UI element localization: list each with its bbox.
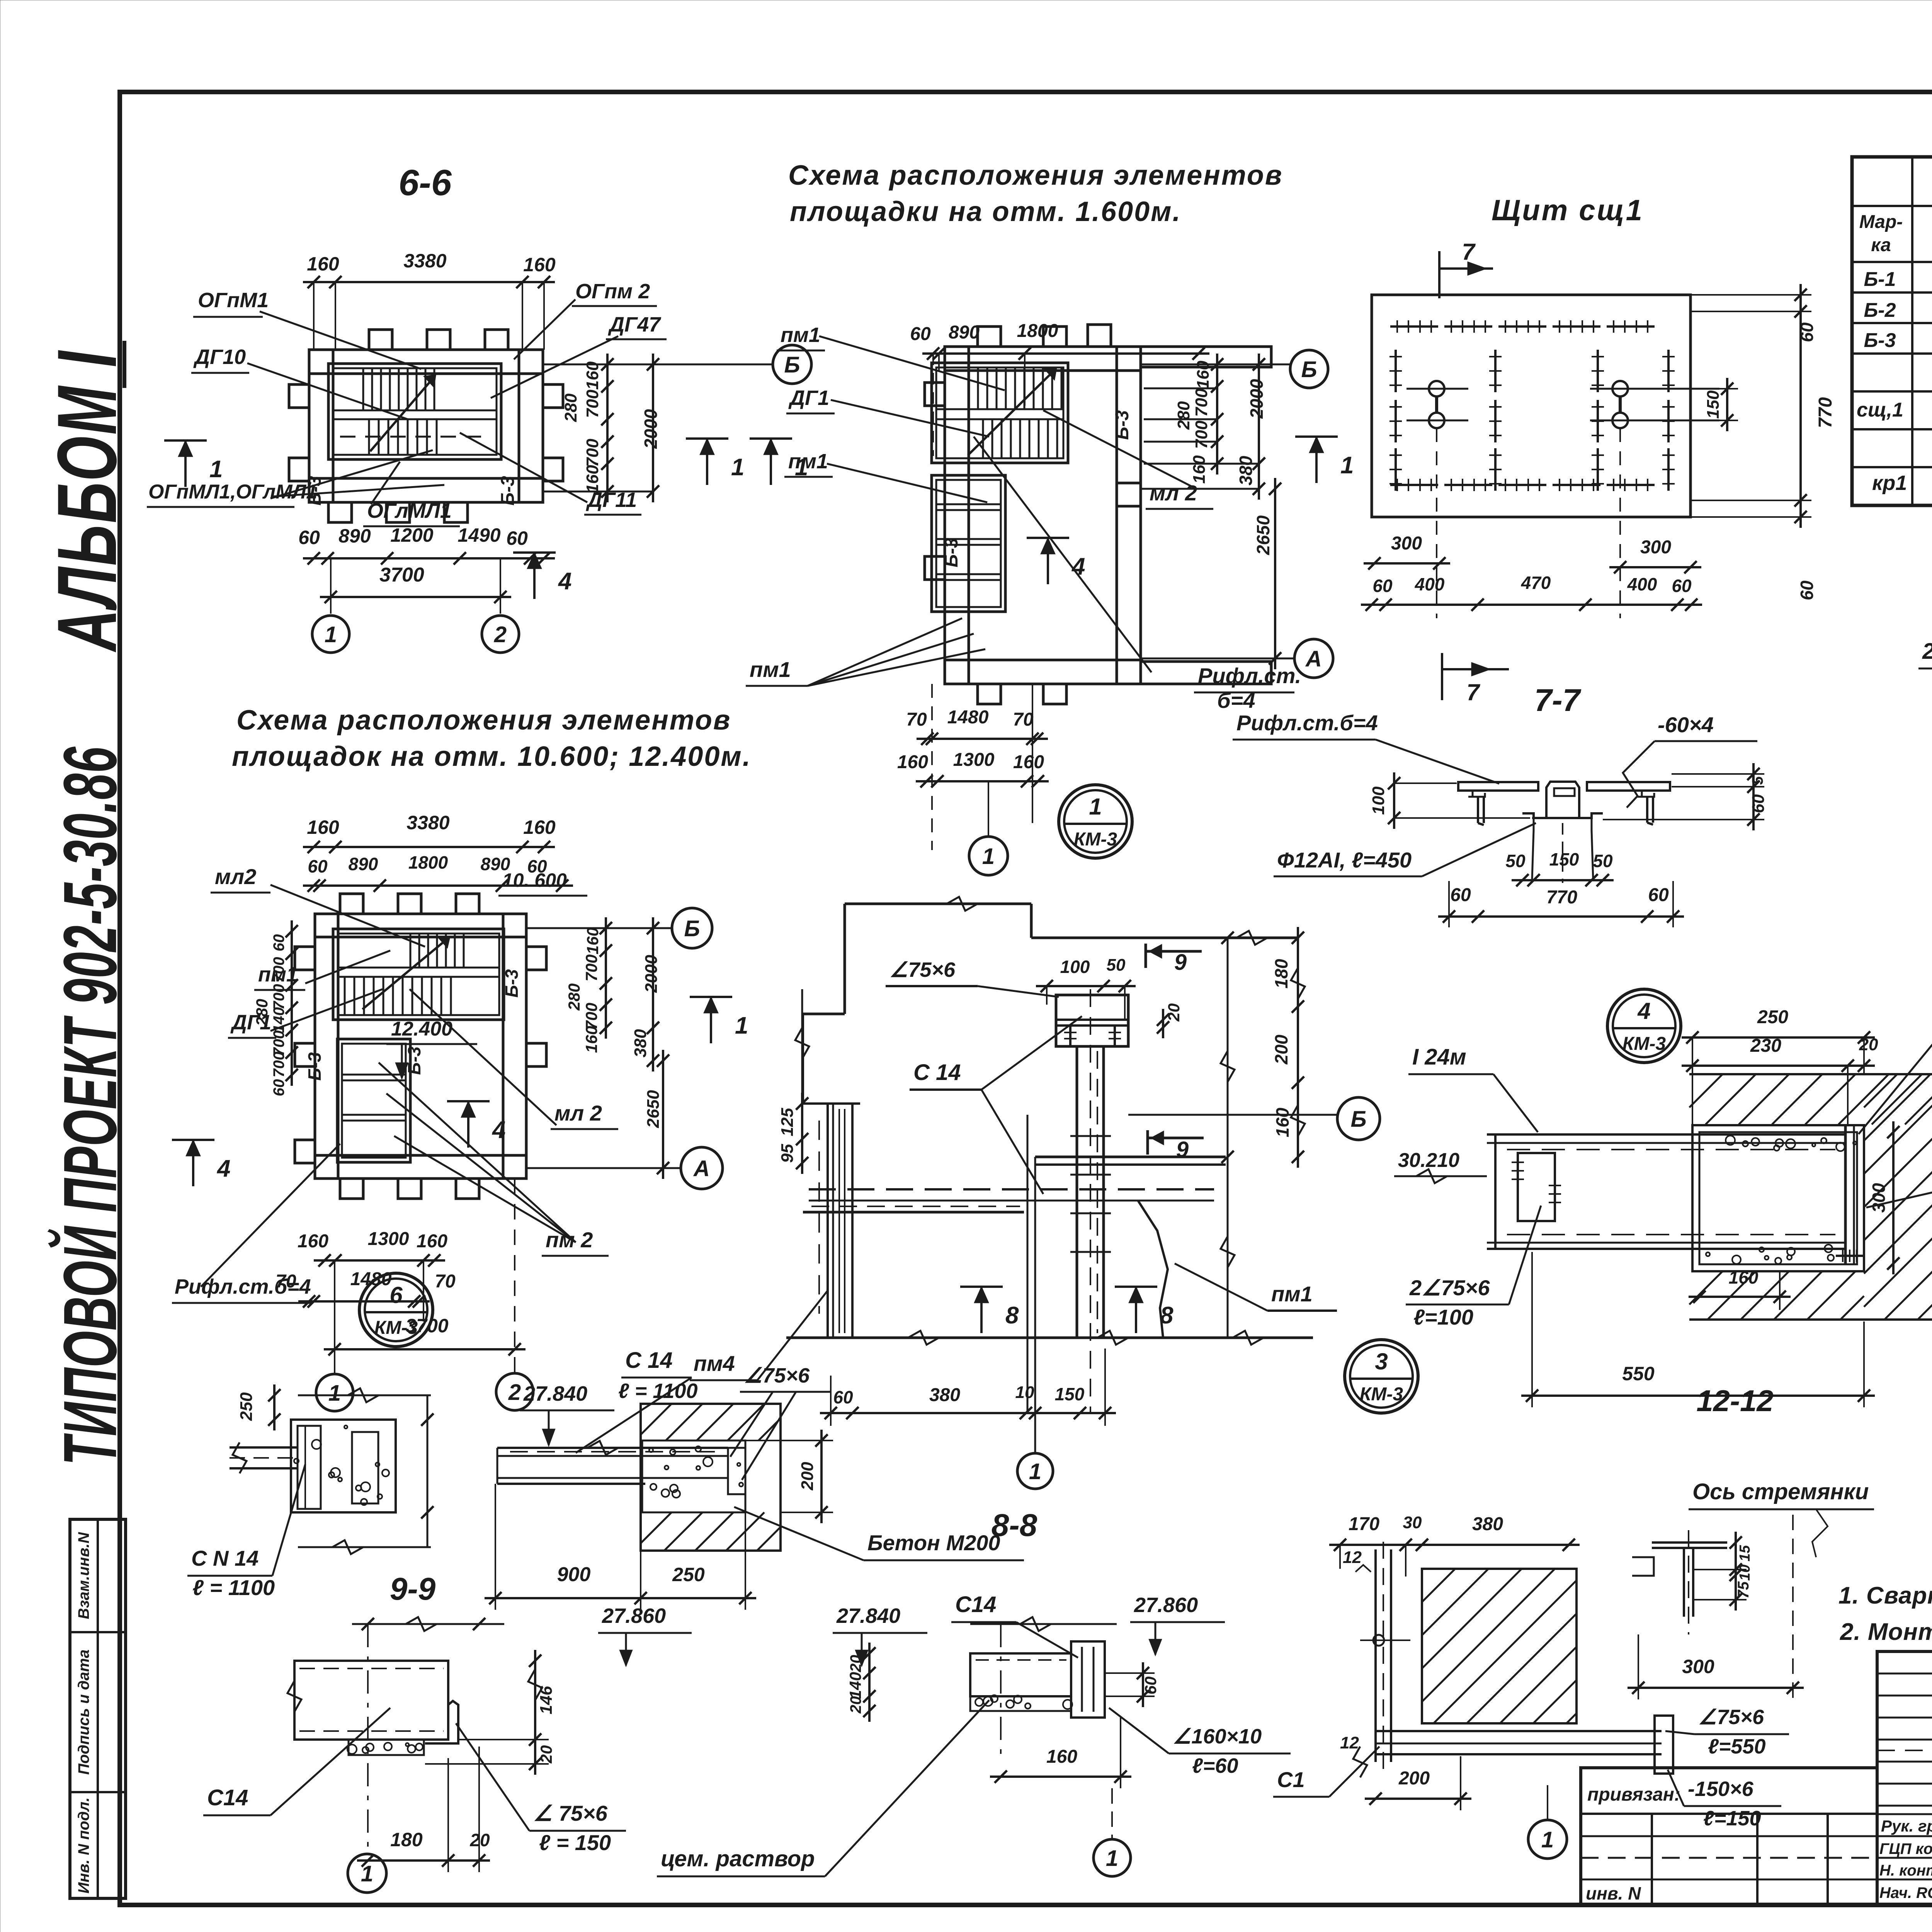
гнездо dimension 300 right (1869, 1121, 1900, 1274)
table row сщ1 (1857, 359, 1932, 426)
svg-text:Нач. RCO: Нач. RCO (1879, 1884, 1932, 1901)
svg-text:АЛЬБОМ I: АЛЬБОМ I (40, 350, 134, 653)
label Б-3 plan 10.600 mid (404, 1046, 424, 1075)
svg-text:160: 160 (1190, 455, 1209, 484)
svg-text:ГЦП конс: ГЦП конс (1879, 1840, 1932, 1857)
detail 12-12 beam bottom (1376, 1716, 1673, 1774)
level mark 12.400 with arrow (386, 1018, 477, 1078)
svg-text:20: 20 (537, 1745, 555, 1764)
svg-text:150: 150 (1549, 849, 1579, 869)
central section left wall bundle (803, 1104, 860, 1338)
svg-text:60: 60 (1749, 794, 1768, 813)
svg-text:8-8: 8-8 (992, 1508, 1037, 1543)
svg-text:900: 900 (557, 1563, 591, 1586)
detail 12-12 dim 200 (1365, 1756, 1471, 1810)
plan 10.600 lower box (337, 1039, 410, 1162)
svg-text:С14: С14 (207, 1785, 248, 1810)
section marks 1-1 right of plan 6-6 (686, 439, 808, 485)
svg-text:Щит сщ1: Щит сщ1 (1492, 194, 1644, 227)
label Рифл.ст.б=4 detail 7-7 (1233, 711, 1499, 784)
plan 6-6 stair box (328, 364, 501, 459)
svg-text:Ф12АI, ℓ=450: Ф12АI, ℓ=450 (1277, 848, 1412, 872)
svg-text:300: 300 (1391, 533, 1422, 554)
svg-text:160: 160 (897, 752, 928, 772)
axis circle Б plan 10.600 (672, 908, 712, 948)
svg-text:250: 250 (672, 1564, 705, 1585)
svg-text:мл 2: мл 2 (554, 1101, 602, 1125)
svg-text:50: 50 (1107, 956, 1126, 975)
svg-text:ОГлМЛ1: ОГлМЛ1 (367, 499, 452, 522)
svg-text:2000: 2000 (1247, 379, 1267, 419)
detail c14 centerline (367, 1624, 369, 1851)
level mark 10.600 (498, 869, 587, 896)
sidebar label Взам.инв N (75, 1532, 92, 1619)
label мл2 plan 10.600 (211, 864, 270, 893)
detail цем dims 20 140 20 (846, 1643, 876, 1722)
svg-text:160: 160 (1013, 752, 1044, 772)
svg-text:20: 20 (1165, 1003, 1183, 1022)
svg-text:пм 2: пм 2 (546, 1228, 593, 1252)
svg-text:площадок на отм. 10.600; 12.40: площадок на отм. 10.600; 12.400м. (232, 741, 752, 772)
section mark 1 plan 1.600 (1295, 437, 1354, 483)
label С14 l=1100 detail 8-8 (576, 1348, 698, 1453)
svg-text:125: 125 (778, 1108, 797, 1136)
svg-text:Подпись и дата: Подпись и дата (75, 1650, 92, 1775)
axis circle Б plan 1.600 (1290, 350, 1328, 388)
label angle 160x10 l=200 (1866, 1134, 1932, 1207)
svg-text:4: 4 (1071, 553, 1085, 580)
svg-text:700: 700 (270, 1052, 287, 1078)
svg-text:1300: 1300 (953, 750, 995, 770)
svg-text:9: 9 (1174, 950, 1187, 975)
svg-text:60: 60 (1141, 1677, 1160, 1695)
гнездо dimensions 250 230 20 (1682, 1007, 1878, 1126)
panel right dimension chain 60 770 60 (1690, 284, 1836, 600)
svg-text:С N 14: С N 14 (191, 1546, 259, 1570)
svg-text:∠75×6: ∠75×6 (744, 1364, 810, 1387)
detail цем dim 60 rotated (1105, 1662, 1160, 1707)
central left dims 125 95 (778, 989, 809, 1174)
svg-text:8: 8 (1005, 1302, 1019, 1329)
axis circle Б plan 6-6 (773, 345, 811, 384)
level 27.860 bottom-left (598, 1604, 692, 1665)
central right dim chain 180 200 160 (1221, 927, 1305, 1337)
svg-text:380: 380 (1472, 1514, 1503, 1534)
svg-text:70: 70 (435, 1271, 456, 1292)
section title 6-6 (398, 162, 452, 203)
svg-text:1: 1 (982, 844, 995, 869)
svg-text:1: 1 (325, 622, 337, 647)
panel bolt pair right (1590, 381, 1719, 618)
svg-text:1800: 1800 (408, 852, 448, 872)
svg-text:95: 95 (778, 1144, 797, 1163)
svg-text:Схема расположения элементов: Схема расположения элементов (236, 705, 731, 736)
section mark 1 left of plan 6-6 (164, 440, 223, 487)
svg-text:27.860: 27.860 (602, 1604, 666, 1628)
detail стремянка dim 300 (1628, 1515, 1804, 1699)
svg-text:700: 700 (582, 954, 600, 981)
node circle 1 КМ-3 center (1059, 785, 1132, 858)
svg-text:2650: 2650 (644, 1090, 663, 1128)
signature rows texts (1879, 1816, 1932, 1902)
svg-text:70: 70 (1013, 709, 1034, 730)
axis circle А plan 1.600 (1294, 639, 1333, 678)
svg-text:12: 12 (1340, 1733, 1359, 1752)
svg-text:10. 600: 10. 600 (502, 869, 567, 891)
svg-text:6: 6 (389, 1282, 403, 1308)
svg-text:9-9: 9-9 (390, 1571, 436, 1607)
label С14 bottom-left (203, 1708, 390, 1815)
svg-text:250: 250 (237, 1392, 256, 1421)
гнездо wall hatch upper (1689, 1074, 1932, 1320)
svg-text:привязан:: привязан: (1587, 1784, 1680, 1805)
plan 1.600 right dimension chain (1141, 354, 1294, 669)
svg-text:∠75×6: ∠75×6 (889, 958, 956, 981)
label Гнездо 250х300х350 (1859, 996, 1932, 1134)
label 2С20 (1918, 639, 1932, 736)
гнездо angle 160x10 vertical (1836, 1125, 1864, 1264)
table row Б-3 (1864, 328, 1932, 354)
svg-text:700: 700 (582, 1003, 600, 1030)
svg-text:20: 20 (847, 1696, 864, 1714)
label Ф12АI l=450 detail 7-7 (1274, 823, 1536, 876)
label пм4 (690, 1291, 828, 1380)
detail 12-12 dims 170 30 380 (1329, 1513, 1580, 1577)
svg-text:Б: Б (784, 352, 800, 378)
detail c14 box (287, 1661, 458, 1755)
svg-text:50: 50 (1505, 851, 1526, 871)
plan 10.600 right dimension chain (526, 917, 681, 1179)
detail 7-7 left tread plate (1458, 782, 1538, 825)
svg-text:160: 160 (307, 253, 339, 275)
svg-text:280: 280 (561, 393, 580, 422)
svg-text:160: 160 (583, 465, 602, 493)
svg-text:КМ-3: КМ-3 (374, 1318, 418, 1338)
table header texts (1859, 166, 1932, 279)
label ОГпм 2 plan 6-6 (572, 280, 657, 306)
section mark 1 plan 10.600 right (690, 997, 748, 1043)
svg-text:160: 160 (583, 361, 602, 390)
svg-text:Н. контр: Н. контр (1879, 1862, 1932, 1879)
svg-text:15: 15 (1737, 1545, 1753, 1561)
svg-text:890: 890 (949, 322, 980, 343)
detail 8-8 concrete band (642, 1440, 745, 1512)
svg-text:60: 60 (1797, 580, 1817, 600)
svg-text:С 14: С 14 (913, 1060, 961, 1085)
svg-text:160: 160 (1272, 1107, 1293, 1137)
svg-text:А: А (1305, 646, 1322, 672)
svg-text:б=4: б=4 (1217, 688, 1255, 713)
label С14 bottom-middle (951, 1592, 1078, 1658)
plan 6-6 castellated wall (289, 330, 563, 522)
svg-text:160: 160 (307, 816, 339, 838)
svg-text:ТИПОВОЙ ПРОЕКТ 902-5-30.86: ТИПОВОЙ ПРОЕКТ 902-5-30.86 (47, 747, 133, 1466)
label ОГпМ1 plan 6-6 (193, 289, 269, 317)
svg-text:ℓ = 1100: ℓ = 1100 (192, 1575, 275, 1600)
detail c14 top dim line (352, 1617, 504, 1631)
panel dimension 150 right (1628, 378, 1738, 431)
svg-text:27.840: 27.840 (836, 1604, 900, 1628)
svg-text:60: 60 (1672, 576, 1692, 596)
svg-text:1: 1 (361, 1861, 373, 1886)
svg-text:8: 8 (1160, 1302, 1173, 1329)
svg-text:20: 20 (847, 1655, 864, 1673)
svg-text:700: 700 (270, 957, 287, 983)
svg-text:300: 300 (1682, 1656, 1714, 1677)
svg-text:Б-3: Б-3 (1864, 329, 1896, 352)
svg-text:60: 60 (298, 527, 320, 548)
label Б-3 left wall plan 6-6 (304, 476, 325, 505)
detail 7-7 right tread plate (1587, 782, 1670, 825)
plan 10.600 top dimensions 160 3380 160 (303, 812, 556, 853)
sidebar stamp boxes (70, 1519, 126, 1898)
plan 10.600 castellated wall (295, 894, 546, 1199)
axis circle 1 plan 10.600 (316, 1374, 353, 1411)
table row Б-2 (1864, 298, 1932, 323)
schema title площадки на отм 1.600 (788, 160, 1283, 227)
axis circle 1 detail 12-12 (1528, 1785, 1567, 1859)
plan 10.600 bottom dimensions (276, 1179, 526, 1374)
label пм1 plan 1.600 mid (784, 450, 833, 477)
svg-text:60: 60 (833, 1387, 853, 1407)
svg-text:3700: 3700 (379, 564, 424, 586)
panel bottom dimension 300 right (1609, 537, 1701, 573)
svg-text:150: 150 (1055, 1384, 1085, 1404)
label мл 2 right plan 10.600 (551, 1101, 618, 1129)
section marks 8-8 (960, 1287, 1173, 1333)
label ДГ11 (584, 488, 641, 515)
label Бетон М200 (734, 1507, 1024, 1560)
svg-text:1: 1 (731, 454, 744, 481)
notes line 1 welding electrodes (1838, 1582, 1932, 1609)
central dimensions 100 50 20 (1036, 956, 1183, 1038)
detail цем box (970, 1617, 1117, 1754)
svg-text:1800: 1800 (1017, 321, 1058, 341)
svg-text:60: 60 (1797, 322, 1817, 342)
svg-text:1: 1 (1089, 794, 1102, 820)
detail 7-7 dimension 100 left (1369, 772, 1530, 829)
axis circle 2 plan 6-6 (482, 616, 519, 653)
svg-text:4: 4 (492, 1117, 505, 1143)
svg-text:160: 160 (523, 254, 556, 276)
svg-text:∠160×10: ∠160×10 (1173, 1725, 1262, 1748)
svg-text:КМ-3: КМ-3 (1622, 1034, 1666, 1054)
svg-text:4: 4 (558, 568, 571, 595)
svg-text:КМ-3: КМ-3 (1360, 1384, 1403, 1405)
svg-text:Б-3: Б-3 (941, 537, 962, 567)
svg-text:1: 1 (1541, 1827, 1554, 1852)
detail стремянка T-post (1632, 1530, 1727, 1634)
detail 8-8 dimension 200 (746, 1430, 833, 1523)
svg-text:700: 700 (583, 389, 602, 418)
central section landing beam С14 (803, 1189, 1214, 1212)
svg-text:2000: 2000 (641, 409, 661, 449)
label Б-3 plan 10.600 right (502, 969, 522, 998)
detail 8-8 level 27.840 (520, 1382, 614, 1445)
svg-text:2650: 2650 (1253, 515, 1273, 555)
svg-text:2∠75×6: 2∠75×6 (1409, 1276, 1490, 1300)
svg-text:160: 160 (582, 1026, 600, 1053)
detail c14 dims 180 20 (357, 1747, 490, 1872)
table row кр1 (1872, 424, 1932, 502)
svg-text:30: 30 (1403, 1513, 1422, 1532)
detail 7-7 center channel (1522, 782, 1603, 883)
axis circle 1 plan 6-6 (312, 616, 349, 653)
svg-text:2. Монтажные болты М12, швы: 2. Монтажные болты М12, швы hш = 6мм. (1840, 1619, 1932, 1645)
svg-text:7-7: 7-7 (1534, 683, 1582, 718)
level 27.840 bottom-middle (833, 1604, 927, 1665)
plan 6-6 right dimension chain 160 700 280 700 160 2000 (544, 354, 774, 502)
svg-text:Схема расположения элементов: Схема расположения элементов (788, 160, 1283, 191)
svg-text:сщ,1: сщ,1 (1857, 399, 1903, 421)
svg-text:140: 140 (270, 1007, 287, 1033)
svg-text:2000: 2000 (642, 955, 661, 993)
svg-text:1: 1 (209, 456, 223, 483)
svg-text:кр1: кр1 (1872, 471, 1907, 495)
svg-text:1480: 1480 (350, 1269, 392, 1289)
svg-text:100: 100 (1369, 786, 1388, 815)
title Щит сщ1 (1492, 194, 1644, 227)
label Б-3 plan 1.600 left wall (941, 537, 962, 567)
svg-text:Б-3: Б-3 (498, 476, 518, 505)
гнездо beam I24 (1487, 1134, 1845, 1249)
svg-text:890: 890 (349, 854, 378, 874)
plan 10.600 left dimension chain (253, 920, 298, 1096)
label ДГ1 plan 1.600 (786, 386, 835, 413)
detail 7-7 dimensions 60 770 60 (1438, 881, 1684, 927)
label angle 160x10 l=60 (1109, 1708, 1291, 1777)
section title 12-12 (1696, 1384, 1774, 1418)
svg-text:ДГ10: ДГ10 (193, 345, 246, 369)
central section baseline (786, 1331, 1313, 1345)
svg-text:Инв. N подл.: Инв. N подл. (75, 1798, 92, 1894)
section mark 4 plan 1.600 (1027, 538, 1085, 584)
svg-text:700: 700 (583, 439, 602, 467)
svg-text:50: 50 (1593, 851, 1613, 871)
svg-text:890: 890 (338, 525, 371, 547)
svg-text:60: 60 (1450, 885, 1471, 905)
svg-text:Ось стремянки: Ось стремянки (1692, 1479, 1869, 1504)
label цем раствор (657, 1700, 989, 1876)
svg-text:180: 180 (390, 1829, 423, 1850)
svg-text:ДГ47: ДГ47 (608, 313, 662, 336)
label пм1 central (1175, 1264, 1337, 1311)
detail 7-7 dimensions 50 150 50 (1505, 849, 1614, 886)
svg-text:ℓ=100: ℓ=100 (1413, 1305, 1473, 1329)
plan 10.600 dimensions 60 890 1800 890 60 (303, 852, 573, 892)
label С14 central (910, 1016, 1082, 1194)
plan 1.600 top dimensions 60 890 1800 (910, 321, 1209, 456)
axis circle 1 bottom-left detail (348, 1854, 386, 1893)
level mark 30.210 (1394, 1149, 1487, 1183)
panel bolt pair left (1406, 381, 1468, 618)
svg-text:площадки на отм. 1.600м.: площадки на отм. 1.600м. (790, 196, 1181, 227)
svg-text:70: 70 (276, 1271, 296, 1292)
plan 6-6 top dimension 160 3380 160 (303, 250, 556, 350)
svg-text:-150×6: -150×6 (1688, 1777, 1754, 1801)
panel bottom dimension 60 400 470 400 60 (1361, 573, 1702, 611)
section mark 7 below panel (1442, 653, 1509, 705)
svg-text:1480: 1480 (947, 707, 989, 728)
svg-text:ОГпМ1: ОГпМ1 (198, 289, 269, 312)
label -60x4 detail 7-7 (1623, 713, 1757, 808)
plan 1.600 lower box with beams Б-3 (932, 475, 1005, 612)
svg-text:цем. раствор: цем. раствор (661, 1846, 815, 1871)
svg-text:146: 146 (537, 1686, 556, 1714)
svg-text:4: 4 (216, 1155, 230, 1182)
level 27.860 bottom-middle (1130, 1594, 1225, 1655)
svg-text:Б: Б (1301, 357, 1317, 382)
central section column head С14 (1056, 995, 1128, 1046)
гнездо rebar plate left (1512, 1153, 1561, 1221)
section title 9-9 (390, 1571, 436, 1607)
sidebar label Подпись и дата (75, 1650, 92, 1775)
svg-text:770: 770 (1815, 397, 1836, 428)
sidebar big text АЛЬБОМ I (40, 350, 134, 653)
label angle 75x6 detail 8-8 (730, 1364, 831, 1480)
label Б-3 plan 1.600 right wall (1112, 410, 1133, 440)
svg-text:160: 160 (1729, 1267, 1759, 1287)
svg-text:300: 300 (1640, 537, 1671, 558)
plan 1.600 castellated wall (925, 325, 1271, 704)
detail 8-8 wall hatch (641, 1404, 781, 1551)
panel bottom dimension 300 left (1364, 533, 1450, 570)
svg-text:КМ-3: КМ-3 (1074, 829, 1117, 850)
svg-text:400: 400 (1415, 574, 1445, 594)
label ДГ1 plan 10.600 (228, 1011, 276, 1038)
label Б-3 plan 10.600 left (304, 1052, 325, 1081)
svg-text:мл 2: мл 2 (1150, 481, 1197, 505)
svg-text:700: 700 (1192, 388, 1211, 417)
svg-text:С 14: С 14 (625, 1348, 673, 1373)
svg-text:100: 100 (1060, 957, 1090, 977)
label Б-3 right wall plan 6-6 (498, 476, 518, 505)
svg-text:200: 200 (1271, 1034, 1291, 1065)
svg-text:12: 12 (1343, 1548, 1362, 1567)
svg-text:160: 160 (298, 1231, 328, 1252)
svg-text:10: 10 (1737, 1565, 1753, 1581)
svg-text:Б-3: Б-3 (304, 1052, 325, 1081)
plan 6-6 bottom dimensions 60 890 1200 1490 60 (298, 524, 555, 565)
axis circle 1 bottom-middle detail (1094, 1788, 1131, 1876)
central section pm1 edge curve (1138, 1201, 1168, 1338)
label Рифл.ст.б=4 plan 10.600 (172, 1275, 312, 1303)
central bottom dimensions 60 380 10 150 (820, 1349, 1116, 1426)
section mark 1 plan 10.600 left (172, 1140, 230, 1186)
svg-text:160: 160 (583, 927, 602, 954)
svg-text:1. Сварку производить электр: 1. Сварку производить электродами типа Э… (1838, 1582, 1932, 1609)
label ДГ47 (606, 313, 667, 339)
svg-text:ℓ=150: ℓ=150 (1703, 1807, 1761, 1830)
plan 1.600 leader lines (819, 336, 1194, 672)
svg-text:Б: Б (684, 916, 700, 941)
svg-text:2: 2 (494, 622, 507, 647)
panel щит outline (1372, 295, 1690, 517)
гнездо dimension 550 (1521, 1252, 1875, 1407)
label Ось стремянки (1689, 1479, 1874, 1557)
svg-text:Рифл.ст.: Рифл.ст. (1198, 663, 1301, 688)
detail стремянка dims 75 10 15 (1693, 1532, 1753, 1611)
svg-text:700: 700 (270, 984, 287, 1010)
svg-text:75: 75 (1735, 1581, 1752, 1599)
svg-text:60: 60 (270, 1079, 287, 1097)
svg-text:пм1: пм1 (781, 323, 820, 347)
label angle 75x6 l=150 (456, 1723, 626, 1855)
label С N 14 l=1100 (187, 1464, 305, 1600)
label Рифл.ст. б=4 plan 1.600 (1194, 663, 1301, 713)
svg-text:пм1: пм1 (1271, 1282, 1313, 1306)
svg-text:200: 200 (798, 1462, 817, 1491)
